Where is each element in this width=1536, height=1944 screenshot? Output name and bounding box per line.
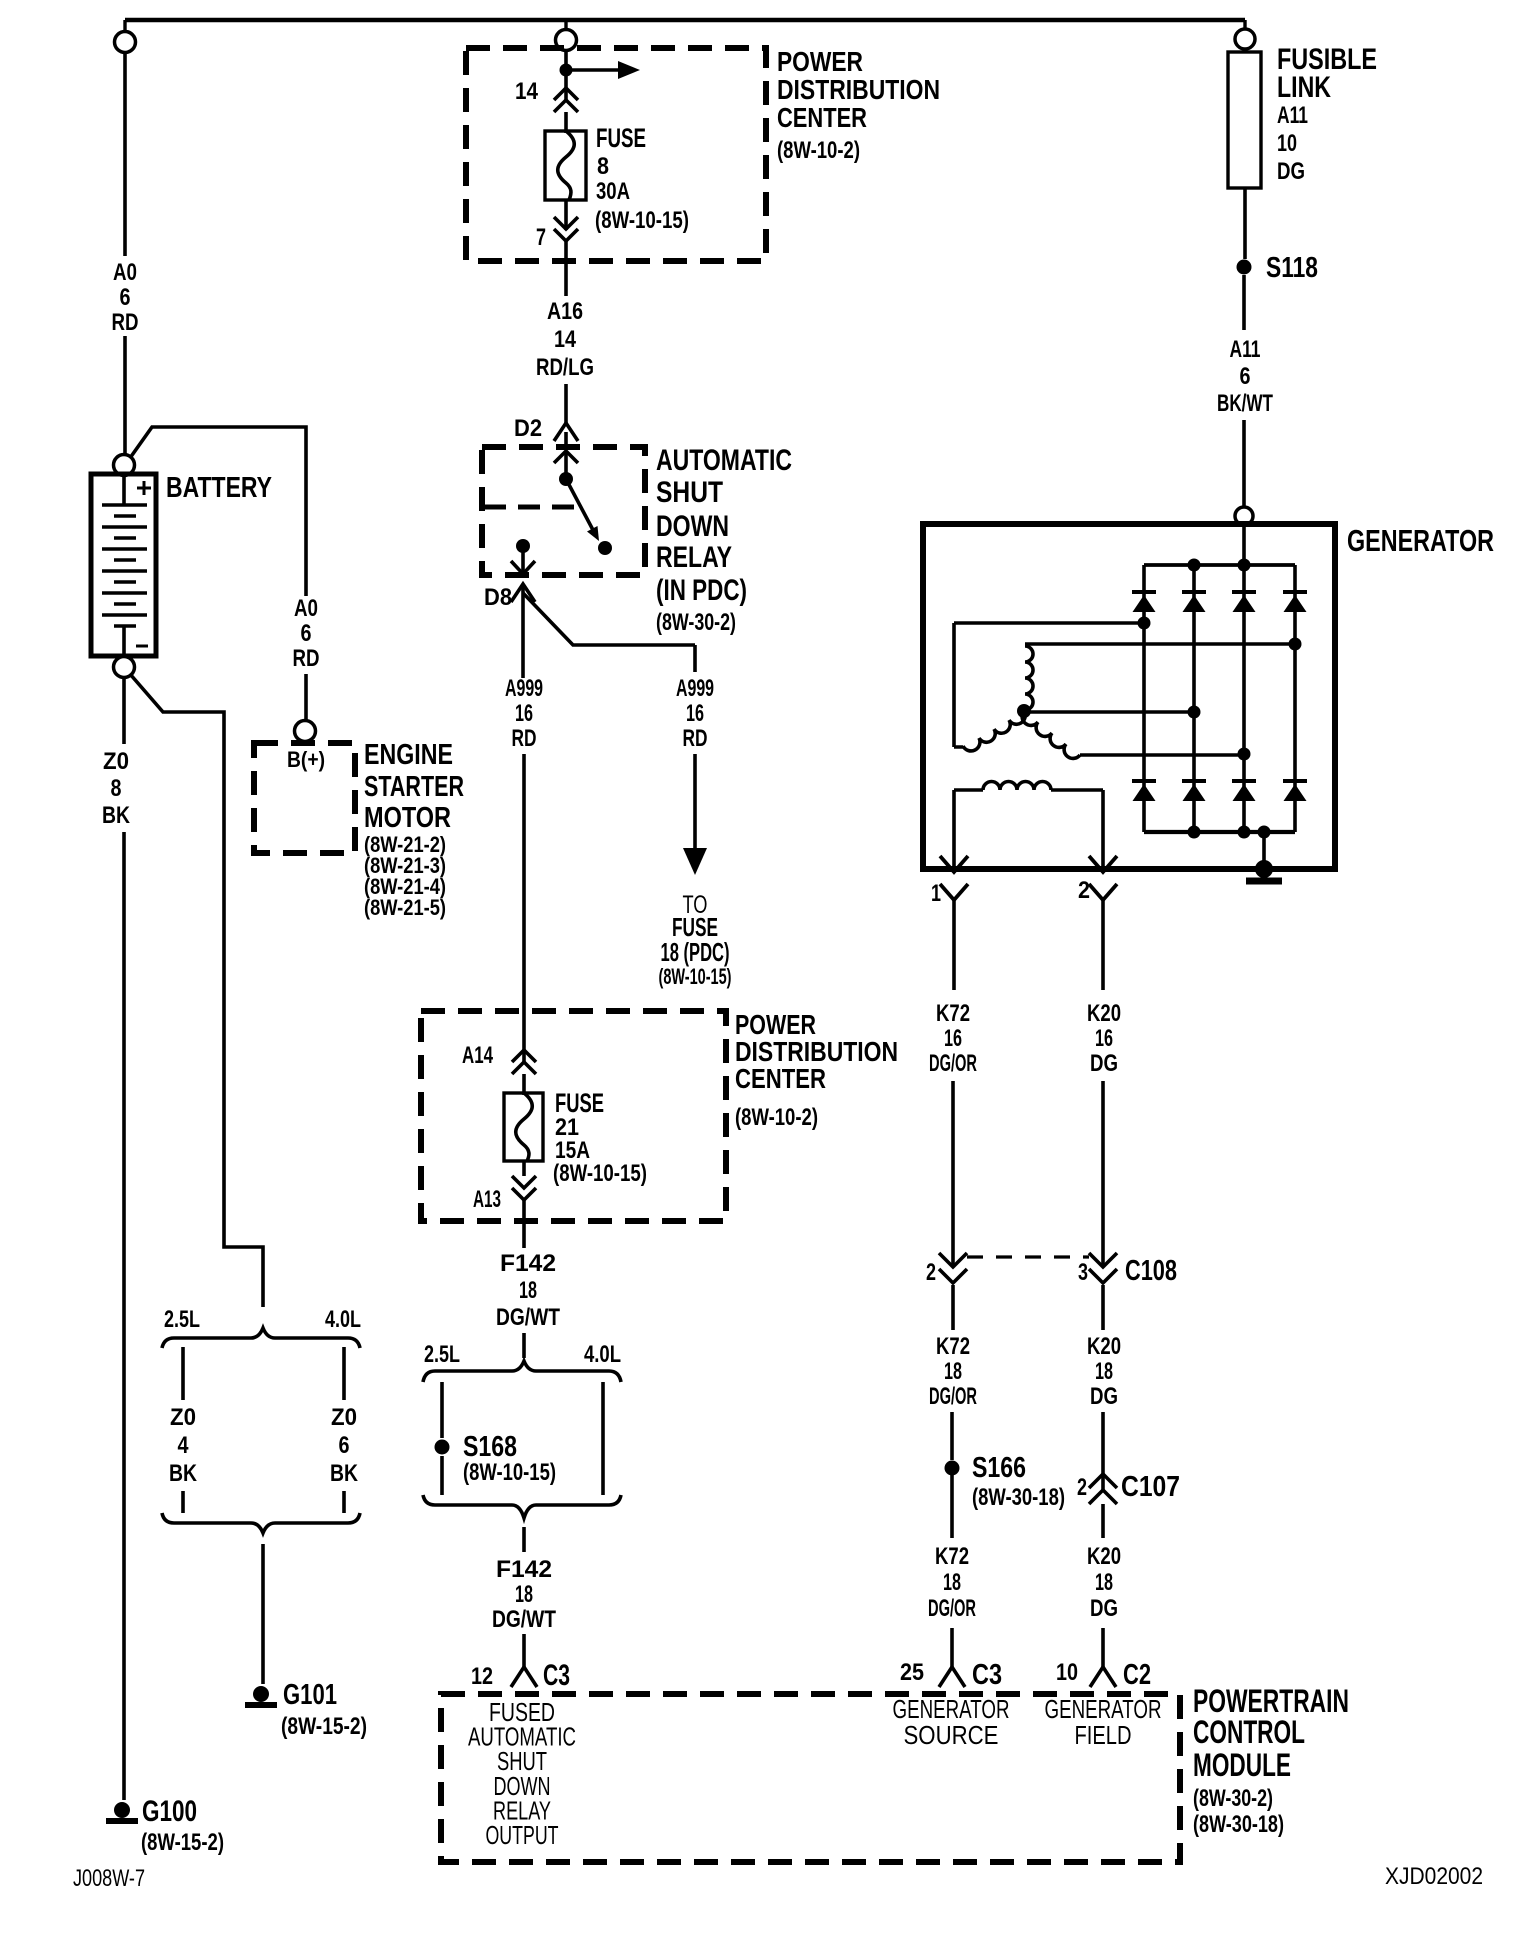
svg-text:(8W-15-2): (8W-15-2) xyxy=(281,1713,367,1740)
svg-text:S166: S166 xyxy=(972,1452,1026,1484)
svg-text:RD: RD xyxy=(683,725,708,752)
svg-text:RD: RD xyxy=(512,725,537,752)
svg-text:F142: F142 xyxy=(496,1556,552,1583)
svg-text:12: 12 xyxy=(471,1663,493,1690)
svg-text:STARTER: STARTER xyxy=(364,771,464,803)
svg-text:A16: A16 xyxy=(547,298,583,325)
svg-text:(8W-30-18): (8W-30-18) xyxy=(1193,1811,1284,1838)
svg-text:D8: D8 xyxy=(484,584,512,611)
svg-text:6: 6 xyxy=(120,284,131,311)
svg-text:DG/OR: DG/OR xyxy=(929,1050,977,1077)
svg-text:(8W-10-15): (8W-10-15) xyxy=(595,207,689,234)
svg-text:1: 1 xyxy=(931,880,941,907)
svg-text:G101: G101 xyxy=(283,1679,337,1711)
svg-text:F142: F142 xyxy=(500,1250,556,1277)
svg-text:18: 18 xyxy=(944,1358,962,1385)
svg-text:30A: 30A xyxy=(596,178,630,205)
svg-text:A0: A0 xyxy=(294,595,318,622)
svg-text:16: 16 xyxy=(1095,1025,1113,1052)
svg-text:AUTOMATIC: AUTOMATIC xyxy=(656,444,792,477)
svg-text:6: 6 xyxy=(1240,363,1251,390)
svg-text:RD/LG: RD/LG xyxy=(536,354,594,381)
svg-text:25: 25 xyxy=(900,1659,924,1686)
svg-text:C2: C2 xyxy=(1123,1659,1151,1691)
svg-text:8: 8 xyxy=(597,153,609,180)
svg-text:(8W-21-5): (8W-21-5) xyxy=(364,895,446,920)
svg-text:OUTPUT: OUTPUT xyxy=(486,1820,559,1850)
svg-text:DISTRIBUTION: DISTRIBUTION xyxy=(777,74,940,105)
svg-text:FIELD: FIELD xyxy=(1075,1720,1132,1750)
svg-text:K20: K20 xyxy=(1087,1543,1121,1570)
svg-text:C108: C108 xyxy=(1125,1255,1177,1287)
svg-text:14: 14 xyxy=(515,78,539,105)
svg-text:6: 6 xyxy=(339,1432,350,1459)
svg-text:DOWN: DOWN xyxy=(656,510,729,543)
svg-text:18: 18 xyxy=(519,1277,537,1304)
svg-text:(8W-10-2): (8W-10-2) xyxy=(777,137,860,164)
svg-text:SOURCE: SOURCE xyxy=(904,1720,999,1750)
svg-text:GENERATOR: GENERATOR xyxy=(1347,523,1494,558)
svg-text:(8W-10-2): (8W-10-2) xyxy=(735,1104,818,1131)
svg-text:16: 16 xyxy=(686,700,704,727)
svg-text:(8W-15-2): (8W-15-2) xyxy=(141,1829,224,1856)
svg-text:18: 18 xyxy=(943,1569,961,1596)
svg-text:18: 18 xyxy=(515,1581,533,1608)
svg-text:A11: A11 xyxy=(1230,336,1261,363)
svg-text:DG: DG xyxy=(1277,158,1305,185)
svg-text:LINK: LINK xyxy=(1277,71,1331,104)
svg-text:(8W-10-15): (8W-10-15) xyxy=(463,1459,556,1486)
svg-text:A13: A13 xyxy=(473,1186,501,1213)
svg-text:K72: K72 xyxy=(936,1000,970,1027)
svg-text:BK: BK xyxy=(102,802,131,829)
svg-text:18 (PDC): 18 (PDC) xyxy=(661,937,730,967)
svg-text:(8W-30-2): (8W-30-2) xyxy=(1193,1785,1273,1812)
svg-text:A999: A999 xyxy=(505,675,543,702)
svg-text:DG: DG xyxy=(1090,1383,1118,1410)
svg-text:DG/WT: DG/WT xyxy=(492,1606,556,1633)
svg-text:A0: A0 xyxy=(113,259,137,286)
svg-text:16: 16 xyxy=(515,700,533,727)
svg-text:D2: D2 xyxy=(514,415,542,442)
svg-text:DG: DG xyxy=(1090,1050,1118,1077)
svg-text:RELAY: RELAY xyxy=(656,541,732,574)
svg-text:C3: C3 xyxy=(543,1659,570,1692)
svg-text:(8W-30-18): (8W-30-18) xyxy=(972,1484,1065,1511)
svg-text:(8W-30-2): (8W-30-2) xyxy=(656,609,736,636)
svg-text:POWER: POWER xyxy=(777,46,863,77)
svg-text:(8W-10-15): (8W-10-15) xyxy=(553,1160,647,1187)
svg-text:C107: C107 xyxy=(1121,1471,1180,1503)
svg-text:(8W-10-15): (8W-10-15) xyxy=(659,964,732,989)
svg-text:C3: C3 xyxy=(972,1659,1002,1691)
svg-text:BATTERY: BATTERY xyxy=(166,472,272,504)
svg-text:DG/OR: DG/OR xyxy=(929,1383,977,1410)
svg-text:2.5L: 2.5L xyxy=(424,1341,460,1368)
svg-text:2: 2 xyxy=(1078,877,1090,904)
svg-text:SHUT: SHUT xyxy=(656,476,723,509)
svg-text:K72: K72 xyxy=(935,1543,969,1570)
svg-text:J008W-7: J008W-7 xyxy=(73,1865,145,1892)
svg-text:6: 6 xyxy=(301,620,312,647)
svg-text:BK/WT: BK/WT xyxy=(1217,390,1273,417)
svg-text:A11: A11 xyxy=(1277,102,1308,129)
svg-text:CENTER: CENTER xyxy=(777,102,867,133)
svg-text:XJD02002: XJD02002 xyxy=(1385,1863,1483,1890)
svg-text:BK: BK xyxy=(169,1460,198,1487)
svg-text:BK: BK xyxy=(330,1460,359,1487)
svg-text:Z0: Z0 xyxy=(170,1404,196,1431)
svg-text:A999: A999 xyxy=(676,675,714,702)
svg-text:FUSE: FUSE xyxy=(596,123,646,153)
svg-text:MODULE: MODULE xyxy=(1193,1747,1291,1783)
svg-text:10: 10 xyxy=(1056,1659,1078,1686)
svg-text:18: 18 xyxy=(1095,1358,1113,1385)
svg-text:CENTER: CENTER xyxy=(735,1063,826,1094)
svg-text:K20: K20 xyxy=(1087,1000,1121,1027)
svg-text:4.0L: 4.0L xyxy=(584,1341,621,1368)
svg-text:Z0: Z0 xyxy=(331,1404,357,1431)
svg-text:B(+): B(+) xyxy=(287,747,325,772)
svg-text:S118: S118 xyxy=(1266,252,1318,284)
svg-text:A14: A14 xyxy=(462,1042,493,1069)
svg-text:2: 2 xyxy=(1077,1474,1087,1501)
svg-text:3: 3 xyxy=(1078,1259,1088,1286)
svg-text:2: 2 xyxy=(926,1259,936,1286)
svg-text:2.5L: 2.5L xyxy=(164,1306,200,1333)
svg-text:K72: K72 xyxy=(936,1333,970,1360)
svg-text:DG: DG xyxy=(1090,1595,1118,1622)
svg-text:18: 18 xyxy=(1095,1569,1113,1596)
svg-text:(IN PDC): (IN PDC) xyxy=(656,574,747,607)
svg-text:8: 8 xyxy=(111,775,122,802)
svg-text:RD: RD xyxy=(112,309,139,336)
svg-text:G100: G100 xyxy=(142,1795,197,1828)
svg-text:K20: K20 xyxy=(1087,1333,1121,1360)
svg-text:10: 10 xyxy=(1277,130,1297,157)
svg-text:16: 16 xyxy=(944,1025,962,1052)
svg-text:MOTOR: MOTOR xyxy=(364,802,451,834)
svg-text:DG/OR: DG/OR xyxy=(928,1595,976,1622)
svg-text:RD: RD xyxy=(293,645,320,672)
svg-text:4.0L: 4.0L xyxy=(325,1306,361,1333)
svg-text:ENGINE: ENGINE xyxy=(364,739,453,771)
svg-text:DG/WT: DG/WT xyxy=(496,1304,560,1331)
svg-text:Z0: Z0 xyxy=(103,748,129,775)
svg-text:4: 4 xyxy=(178,1432,190,1459)
svg-text:7: 7 xyxy=(536,224,546,251)
svg-text:CONTROL: CONTROL xyxy=(1193,1714,1305,1750)
svg-text:14: 14 xyxy=(554,326,577,353)
